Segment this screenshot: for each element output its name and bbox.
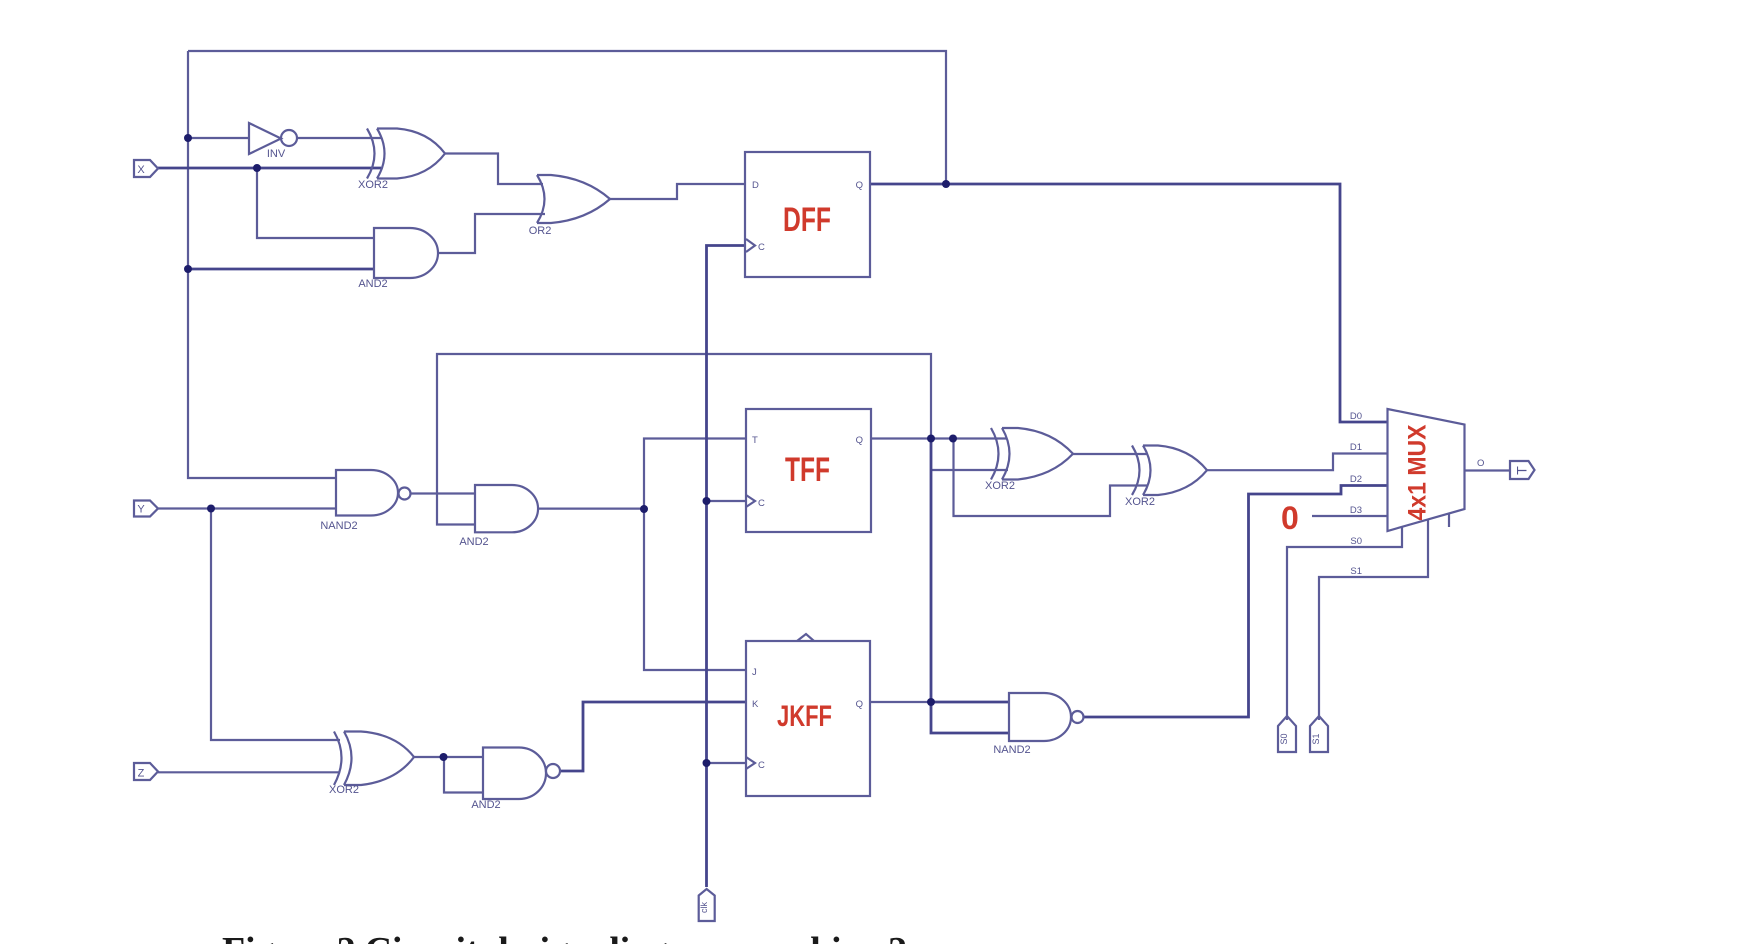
wire XOR2 mid2 output to MUX D1	[1207, 454, 1387, 471]
wire JKFF Q output	[870, 701, 931, 703]
input flag Y	[134, 501, 158, 517]
svg-text:XOR2: XOR2	[329, 784, 359, 796]
flag clk	[699, 889, 715, 921]
and gate AND2 mid	[475, 485, 538, 532]
wire Y input	[158, 507, 336, 509]
nand gate NAND2 mid	[336, 470, 398, 516]
wire to XOR2 mid2 lower input	[954, 439, 1148, 517]
xor gate XOR2 mid2	[1132, 446, 1140, 496]
svg-text:TFF: TFF	[785, 451, 830, 489]
wire INV input	[188, 137, 249, 139]
wire clk to JKFF C	[707, 762, 747, 764]
wire XOR2 bottom output to AND2 bottom	[414, 756, 483, 758]
wire node to TFF T	[644, 439, 746, 510]
wire OR2 output to DFF D	[610, 184, 745, 199]
and gate AND2 top	[374, 228, 438, 278]
svg-text:D1: D1	[1350, 442, 1362, 453]
output flag T	[1510, 461, 1535, 479]
wire XOR2 top output to OR2	[445, 154, 543, 185]
wire AND2 top lower input from rail	[188, 268, 374, 271]
nand gate AND2 bottom	[483, 748, 546, 800]
or gate OR2	[537, 175, 545, 223]
svg-text:S0: S0	[1279, 733, 1289, 744]
svg-text:Q: Q	[856, 180, 863, 191]
input flag X	[134, 160, 158, 177]
svg-text:Y: Y	[137, 504, 145, 516]
svg-text:D: D	[752, 180, 759, 191]
svg-text:D3: D3	[1350, 505, 1362, 516]
svg-text:D2: D2	[1350, 474, 1362, 485]
wire top feedback from DFF Q to left rail	[188, 51, 946, 184]
node Y branch junction	[207, 505, 215, 513]
wire INV output to XOR2 top input	[297, 137, 381, 139]
flip-flop JKFF box	[746, 641, 870, 796]
svg-text:T: T	[752, 435, 758, 446]
wire XOR2 mid1 lower input	[931, 469, 1008, 471]
svg-text:Figure 2 Circuit design diagra: Figure 2 Circuit design diagram machine …	[222, 930, 907, 944]
wire Y rail down to XOR2 bottom upper input	[211, 509, 340, 741]
xor gate XOR2 mid1	[991, 428, 999, 480]
svg-text:INV: INV	[267, 148, 286, 160]
wire branch to AND2 bottom lower input	[444, 757, 483, 793]
node AND2 mid output junction	[640, 505, 648, 513]
inverter INV	[249, 123, 281, 154]
mux select tick	[1448, 514, 1450, 527]
svg-text:O: O	[1477, 458, 1484, 469]
mux 4x1 MUX trapezoid	[1388, 409, 1465, 531]
JKFF clock wedge	[746, 757, 755, 769]
svg-text:OR2: OR2	[529, 225, 552, 237]
JKFF top mark	[797, 634, 814, 641]
xor gate XOR2 top	[367, 129, 375, 179]
svg-text:NAND2: NAND2	[993, 744, 1030, 756]
nand gate NAND2 bottom	[1009, 693, 1071, 741]
wire Q rail down to NAND2 bottom lower input	[931, 439, 1009, 734]
svg-text:XOR2: XOR2	[985, 480, 1015, 492]
wire NAND2 bottom upper input	[931, 701, 1009, 704]
node JKFF Q junction	[927, 698, 935, 706]
node TFF clock junction	[703, 497, 711, 505]
svg-text:DFF: DFF	[783, 201, 831, 239]
svg-text:C: C	[758, 760, 765, 771]
svg-text:Q: Q	[856, 699, 863, 710]
svg-text:S1: S1	[1311, 733, 1321, 744]
wire NAND2 bottom output to MUX D2	[1084, 486, 1388, 718]
node TFF Q junction B	[949, 435, 957, 443]
svg-text:C: C	[758, 498, 765, 509]
wire XOR2 mid1 output to XOR2 mid2	[1073, 453, 1148, 455]
node AND2 top lower junction	[184, 265, 192, 273]
svg-text:T: T	[1514, 466, 1530, 475]
wire AND2 top output to OR2	[438, 214, 545, 253]
flag S1	[1310, 716, 1328, 752]
xor gate XOR2 bottom	[334, 732, 342, 786]
svg-text:C: C	[758, 242, 765, 253]
node JKFF clock junction	[703, 759, 711, 767]
svg-text:NAND2: NAND2	[320, 520, 357, 532]
svg-text:Z: Z	[138, 768, 145, 780]
node X branch junction	[253, 164, 261, 172]
svg-text:AND2: AND2	[471, 799, 500, 811]
wire X input	[158, 167, 381, 170]
input flag Z	[134, 763, 158, 780]
node INV input junction	[184, 134, 192, 142]
svg-text:K: K	[752, 699, 759, 710]
svg-text:4x1 MUX: 4x1 MUX	[1404, 424, 1432, 520]
flip-flop DFF box	[745, 152, 870, 277]
wire X branch to AND2 top input	[257, 168, 374, 238]
node DFF Q junction	[942, 180, 950, 188]
DFF clock wedge	[746, 239, 755, 252]
wire clk to TFF C	[707, 500, 747, 502]
svg-text:S0: S0	[1350, 536, 1362, 547]
svg-text:J: J	[752, 667, 757, 678]
svg-text:Q: Q	[856, 435, 863, 446]
wire AND2 mid output	[538, 508, 644, 510]
wire Z input	[158, 771, 340, 773]
wire TFF Q output	[871, 437, 1007, 439]
wire DFF Q to MUX D0	[870, 184, 1387, 422]
TFF clock wedge	[746, 495, 755, 507]
flag S0	[1278, 716, 1296, 752]
wire constant 0 to MUX D3	[1312, 515, 1387, 517]
svg-text:AND2: AND2	[459, 536, 488, 548]
wire AND2 bottom output to JKFF K	[560, 702, 746, 771]
wire NAND2 mid output to AND2 mid	[411, 492, 476, 494]
wire left rail down to NAND2 upper input	[188, 51, 336, 478]
wire MUX output to T	[1465, 469, 1510, 471]
node XOR2 bottom output junction	[440, 753, 448, 761]
svg-text:XOR2: XOR2	[358, 179, 388, 191]
wire clk rail	[707, 246, 746, 888]
node TFF Q junction A	[927, 435, 935, 443]
svg-text:0: 0	[1281, 500, 1299, 536]
svg-text:S1: S1	[1350, 566, 1362, 577]
wire S0	[1287, 527, 1402, 721]
svg-text:clk: clk	[699, 902, 709, 913]
svg-text:XOR2: XOR2	[1125, 496, 1155, 508]
svg-text:X: X	[137, 164, 145, 176]
svg-text:AND2: AND2	[358, 278, 387, 290]
wire node to JKFF J	[644, 509, 746, 670]
flip-flop TFF box	[746, 409, 871, 532]
wire TFF Q feedback to AND2 mid lower input	[437, 354, 931, 525]
svg-text:D0: D0	[1350, 411, 1362, 422]
svg-text:JKFF: JKFF	[777, 700, 832, 733]
wire S1	[1319, 520, 1428, 721]
